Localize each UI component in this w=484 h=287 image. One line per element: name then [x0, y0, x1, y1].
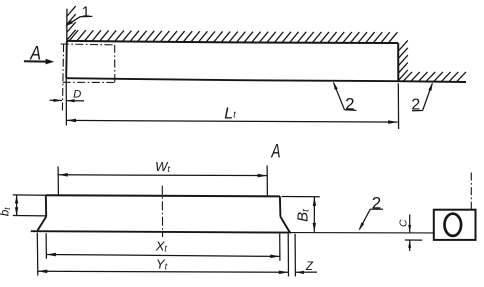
svg-text:1: 1 [82, 4, 90, 21]
svg-text:A: A [271, 142, 281, 163]
svg-text:Z: Z [305, 261, 314, 273]
svg-text:D: D [73, 89, 81, 101]
svg-text:C: C [398, 219, 410, 227]
